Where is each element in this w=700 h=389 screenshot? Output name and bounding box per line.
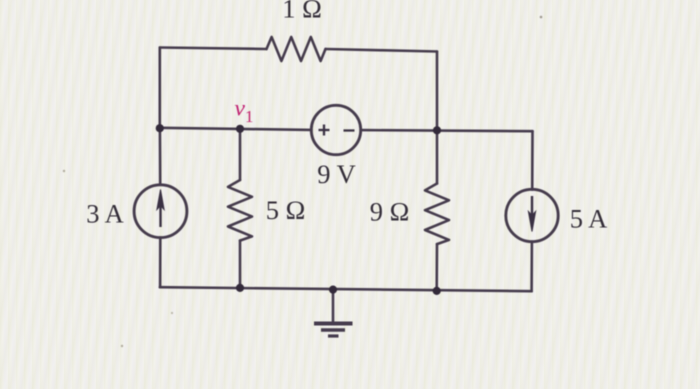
wire top-right horizontal [326, 49, 438, 52]
svg-text:1: 1 [245, 107, 254, 126]
current source I1 arrow [157, 190, 164, 228]
wire bottom horizontal [160, 287, 532, 291]
wire left vertical lower (3A source to bottom) [159, 238, 162, 288]
voltage source V1 9V circle [311, 105, 360, 154]
wire right vertical upper (to 5A source) [531, 131, 534, 189]
ground symbol bars [314, 324, 353, 337]
svg-text:v: v [235, 96, 246, 122]
wire right vertical lower [530, 242, 533, 292]
resistor R3 9ohm zigzag [425, 184, 449, 245]
wire left vertical upper [159, 48, 162, 128]
junction dot node v1 (middle left) [156, 124, 164, 132]
wire 9ohm branch vertical (top node to resistor) [436, 52, 439, 184]
voltage source minus sign [344, 129, 355, 131]
wire top-left horizontal [160, 48, 267, 50]
junction dot bottom of 5ohm [236, 284, 244, 292]
svg-text:9 V: 9 V [317, 159, 356, 189]
junction dot ground node [329, 286, 337, 294]
current source I2 arrow (down) [528, 196, 535, 232]
wire 5ohm bottom stub [239, 241, 242, 288]
wire middle-left horizontal [160, 128, 312, 130]
svg-text:5 Ω: 5 Ω [266, 195, 306, 225]
svg-text:3 A: 3 A [86, 199, 124, 229]
current source I2 5A circle [506, 189, 558, 241]
junction dot bottom of 9ohm [433, 287, 441, 295]
resistor R1 1ohm zigzag [267, 37, 326, 61]
current source I1 3A circle [134, 185, 187, 238]
junction dot node v1 top of 5ohm [236, 125, 244, 133]
voltage source plus sign [319, 125, 330, 136]
svg-text:9 Ω: 9 Ω [370, 197, 410, 227]
ground stub wire [332, 290, 335, 323]
resistor R2 5ohm zigzag [228, 180, 252, 241]
wire left vertical mid (to 3A source) [159, 128, 162, 185]
wire 5ohm branch top stub [239, 129, 242, 180]
svg-text:1 Ω: 1 Ω [282, 0, 322, 24]
wire middle-right horizontal [361, 130, 533, 131]
svg-text:5 A: 5 A [570, 204, 608, 234]
wire 9ohm bottom stub [435, 244, 438, 291]
junction dot top of 9ohm [433, 126, 441, 134]
